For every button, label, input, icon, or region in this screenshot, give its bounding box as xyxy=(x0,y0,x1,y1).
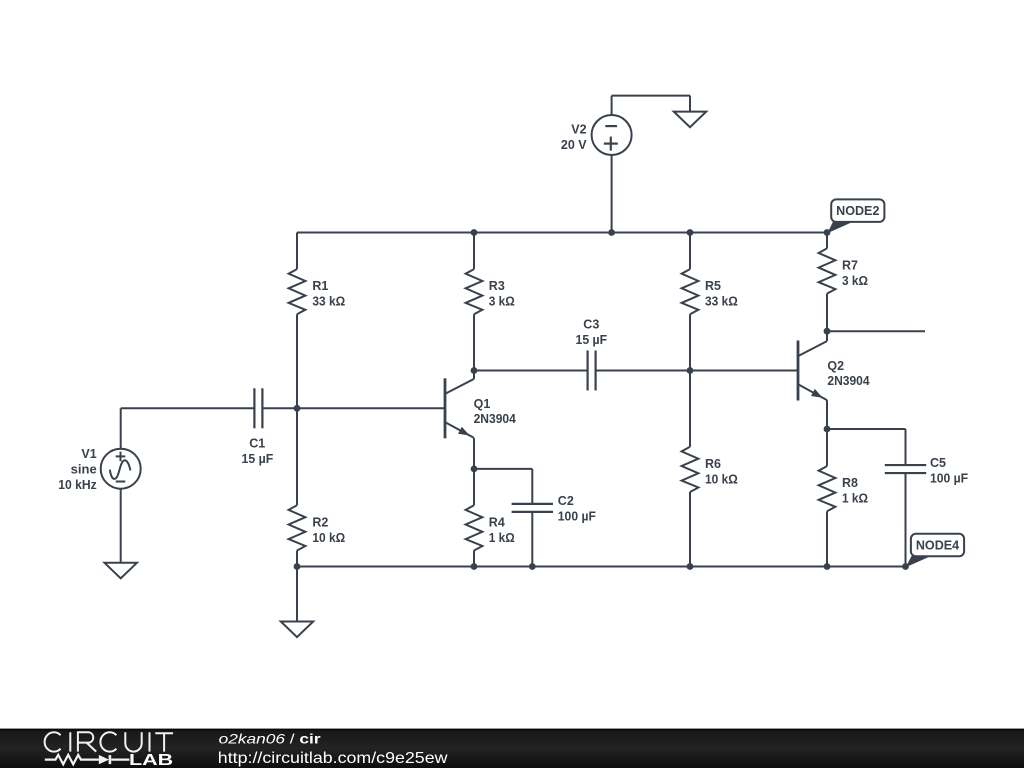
svg-text:1 kΩ: 1 kΩ xyxy=(842,492,868,506)
svg-text:1 kΩ: 1 kΩ xyxy=(489,531,515,545)
svg-text:10 kΩ: 10 kΩ xyxy=(312,531,345,545)
svg-text:100 µF: 100 µF xyxy=(558,510,596,524)
svg-text:33 kΩ: 33 kΩ xyxy=(705,295,738,309)
svg-text:100 µF: 100 µF xyxy=(930,472,968,486)
svg-text:10 kHz: 10 kHz xyxy=(58,478,97,492)
svg-text:10 kΩ: 10 kΩ xyxy=(705,472,738,486)
svg-text:R1: R1 xyxy=(312,279,328,293)
svg-text:15 µF: 15 µF xyxy=(576,333,608,347)
svg-text:LAB: LAB xyxy=(129,752,173,768)
svg-text:sine: sine xyxy=(71,463,97,477)
svg-text:2N3904: 2N3904 xyxy=(827,374,869,388)
svg-text:o2kan06 / cir: o2kan06 / cir xyxy=(219,731,322,747)
svg-text:20 V: 20 V xyxy=(561,138,587,152)
svg-text:NODE2: NODE2 xyxy=(836,204,879,218)
svg-text:C1: C1 xyxy=(249,437,265,451)
svg-text:C5: C5 xyxy=(930,456,946,470)
svg-text:V1: V1 xyxy=(81,447,96,461)
svg-text:15 µF: 15 µF xyxy=(242,452,274,466)
svg-text:V2: V2 xyxy=(571,123,586,137)
svg-text:R2: R2 xyxy=(312,515,328,529)
svg-text:R5: R5 xyxy=(705,279,721,293)
svg-text:C2: C2 xyxy=(558,494,574,508)
svg-text:R8: R8 xyxy=(842,476,858,490)
svg-text:C3: C3 xyxy=(583,318,599,332)
svg-text:NODE4: NODE4 xyxy=(916,539,959,553)
svg-text:3 kΩ: 3 kΩ xyxy=(842,274,868,288)
svg-text:33 kΩ: 33 kΩ xyxy=(312,295,345,309)
svg-text:Q1: Q1 xyxy=(474,397,491,411)
svg-text:R3: R3 xyxy=(489,279,505,293)
svg-text:R6: R6 xyxy=(705,457,721,471)
svg-text:R4: R4 xyxy=(489,515,505,529)
svg-text:Q2: Q2 xyxy=(827,359,844,373)
svg-text:3 kΩ: 3 kΩ xyxy=(489,295,515,309)
svg-text:http://circuitlab.com/c9e25ew: http://circuitlab.com/c9e25ew xyxy=(218,750,448,767)
svg-text:2N3904: 2N3904 xyxy=(474,412,516,426)
svg-text:R7: R7 xyxy=(842,258,858,272)
